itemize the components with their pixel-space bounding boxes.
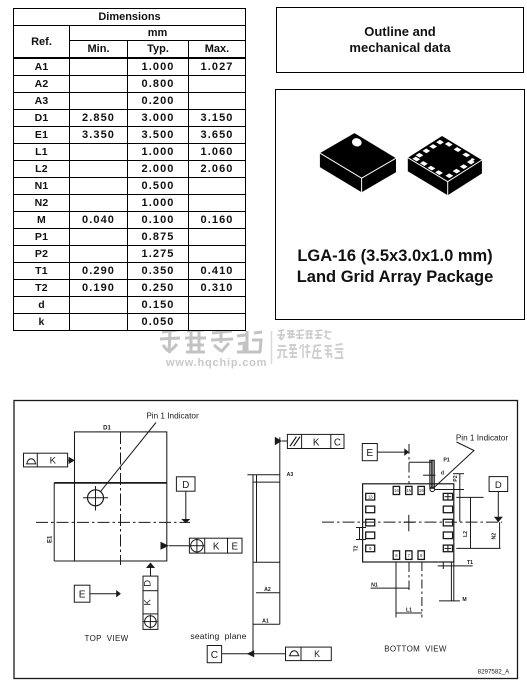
svg-text:T1: T1	[467, 560, 473, 566]
M dimension	[439, 600, 460, 602]
side view top edge	[247, 474, 279, 476]
svg-text:L1: L1	[406, 607, 412, 613]
svg-text:T2: T2	[353, 545, 359, 551]
svg-text:15: 15	[406, 488, 411, 493]
svg-text:C: C	[211, 650, 218, 661]
svg-text:d: d	[441, 471, 444, 477]
A1 tick	[253, 623, 280, 625]
big watermark glyphs 华强芯城	[160, 330, 262, 352]
svg-text:TOP VIEW: TOP VIEW	[85, 634, 129, 643]
svg-text:E1: E1	[48, 535, 54, 543]
svg-text:C: C	[334, 437, 341, 448]
datum frame (profile K) bottom	[286, 647, 332, 661]
bottom view outline	[363, 484, 454, 562]
pads right column	[443, 493, 452, 500]
A2 tick	[256, 592, 280, 594]
svg-text:K: K	[213, 541, 220, 552]
top view outline with D1 dimension extension	[75, 432, 167, 561]
svg-text:L2: L2	[463, 531, 469, 537]
datum box E (below top view)	[74, 585, 90, 602]
center cross	[408, 515, 410, 532]
pin 1 leader (top view)	[101, 423, 156, 492]
side view body left edge	[256, 475, 258, 563]
vertical centerline (top view)	[120, 432, 122, 565]
svg-text:16: 16	[419, 488, 424, 493]
svg-text:N2: N2	[492, 533, 498, 540]
pin 1 leader (bottom view)	[434, 442, 474, 488]
crosshair marks in right pads 1 and 5	[445, 496, 452, 498]
pads bottom row	[393, 551, 399, 560]
vertical centerline above square	[408, 444, 410, 484]
元器件在线商城	[277, 344, 343, 358]
side view bottom edge	[253, 561, 280, 563]
pin 1 indicator circle (bottom view)	[430, 487, 435, 492]
svg-text:K: K	[313, 437, 320, 448]
svg-text:13: 13	[368, 494, 373, 499]
right chip	[408, 136, 482, 195]
package top edge (thick)	[54, 482, 167, 484]
package picture box	[275, 89, 525, 320]
svg-text:D: D	[495, 480, 502, 491]
divider	[271, 331, 273, 364]
side view right extension line	[279, 437, 281, 624]
svg-text:14: 14	[394, 488, 399, 493]
L2 dimension	[470, 497, 472, 548]
N1 dimension	[371, 587, 409, 589]
L1 dimension	[396, 612, 422, 614]
svg-text:P1: P1	[443, 458, 449, 464]
datum box D (top view)	[176, 477, 195, 491]
svg-text:Pin 1 Indicator: Pin 1 Indicator	[456, 434, 509, 443]
outline header box	[276, 7, 524, 73]
svg-text:seating plane: seating plane	[190, 631, 246, 641]
svg-text:6: 6	[420, 553, 423, 558]
pad numbers	[368, 488, 424, 558]
P2 dimension	[459, 474, 461, 522]
drawing frame	[14, 401, 518, 679]
svg-text:M: M	[462, 597, 466, 603]
svg-text:E: E	[232, 541, 239, 552]
d hatched feature	[430, 460, 435, 488]
dimensions table	[13, 8, 246, 331]
svg-text:A3: A3	[287, 472, 294, 478]
datum box C	[207, 646, 221, 663]
svg-text:A2: A2	[264, 587, 271, 593]
svg-text:D1: D1	[103, 426, 111, 432]
T1 dimension	[438, 565, 473, 567]
seating plane line with arrow	[222, 653, 286, 655]
svg-text:N1: N1	[371, 582, 378, 588]
side view left extension line	[252, 475, 254, 654]
svg-text:K: K	[314, 649, 320, 659]
feature control frame (position K E) right of top view	[189, 538, 242, 553]
svg-text:9: 9	[369, 546, 372, 551]
horizontal centerline (bottom view)	[322, 521, 502, 523]
pads top row	[393, 486, 399, 494]
pin 1 indicator circle (top view)	[88, 490, 104, 506]
package bottom edge extension	[54, 560, 74, 562]
华强集团旗下	[277, 330, 331, 340]
vertical feature control frame (D K position) below top view	[143, 576, 158, 629]
datum box D (bottom view)	[489, 477, 508, 492]
svg-text:P2: P2	[453, 475, 459, 481]
pads left column	[366, 486, 453, 559]
N2 dimension	[499, 522, 501, 548]
svg-text:A1: A1	[262, 618, 269, 624]
svg-text:7: 7	[408, 553, 411, 558]
datum box E (bottom view)	[362, 444, 377, 461]
T2 dimension (left of square)	[359, 528, 361, 540]
svg-text:E: E	[79, 590, 86, 601]
svg-text:K: K	[50, 456, 57, 467]
datum frame (profile K) top-left	[24, 453, 68, 467]
svg-text:8297582_A: 8297582_A	[478, 669, 511, 676]
svg-text:Pin 1 Indicator: Pin 1 Indicator	[146, 412, 199, 421]
svg-text:D: D	[142, 580, 153, 587]
svg-text:8: 8	[395, 553, 398, 558]
svg-text:BOTTOM VIEW: BOTTOM VIEW	[384, 645, 447, 654]
svg-text:K: K	[142, 598, 153, 605]
feature control frame (parallel K C)	[287, 434, 344, 448]
left chip	[320, 133, 482, 195]
svg-text:E: E	[366, 448, 373, 459]
pads on top face: transform maps unit square	[411, 138, 478, 179]
E1 dimension line	[53, 483, 55, 561]
horizontal centerline (top view)	[36, 521, 190, 523]
svg-text:D: D	[182, 480, 189, 491]
A3 line	[253, 481, 280, 483]
vertical centerline below square	[408, 562, 410, 590]
P1 dimension	[409, 461, 432, 463]
